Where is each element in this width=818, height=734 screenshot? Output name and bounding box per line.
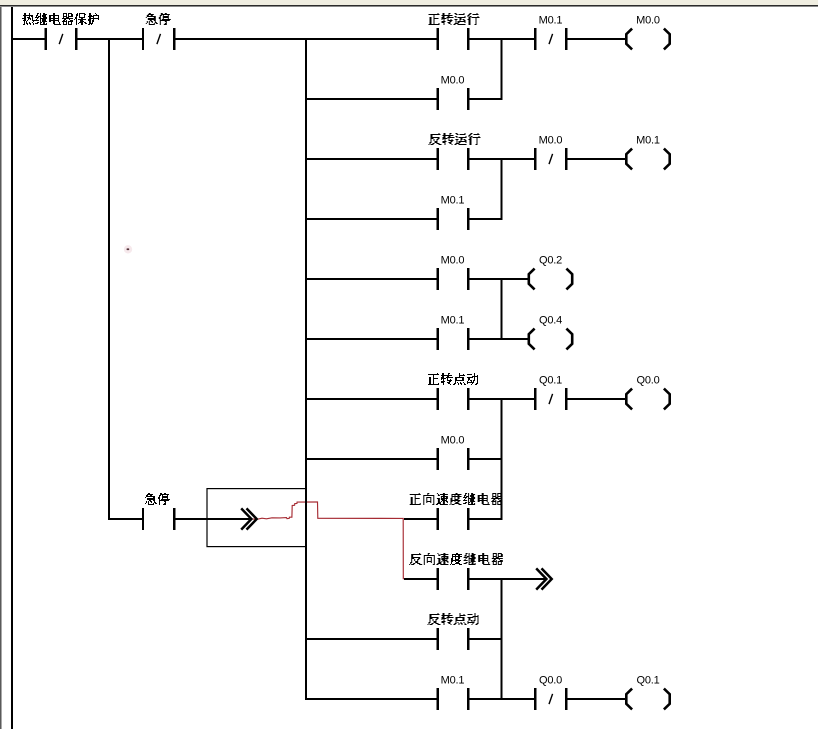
svg-text:Q0.4: Q0.4 <box>539 315 562 327</box>
svg-text:Q0.1: Q0.1 <box>539 375 562 387</box>
svg-text:Q0.0: Q0.0 <box>539 675 562 687</box>
svg-text:M0.0: M0.0 <box>539 135 563 147</box>
svg-text:M0.1: M0.1 <box>441 195 465 207</box>
svg-text:M0.1: M0.1 <box>539 15 563 27</box>
svg-text:M0.0: M0.0 <box>441 255 465 267</box>
svg-text:Q0.0: Q0.0 <box>636 375 659 387</box>
svg-text:Q0.1: Q0.1 <box>636 675 659 687</box>
svg-text:Q0.2: Q0.2 <box>539 255 562 267</box>
svg-text:M0.1: M0.1 <box>441 315 465 327</box>
svg-text:M0.1: M0.1 <box>636 135 660 147</box>
svg-text:M0.1: M0.1 <box>441 675 465 687</box>
svg-text:M0.0: M0.0 <box>636 15 660 27</box>
svg-text:M0.0: M0.0 <box>441 75 465 87</box>
svg-text:M0.0: M0.0 <box>441 435 465 447</box>
